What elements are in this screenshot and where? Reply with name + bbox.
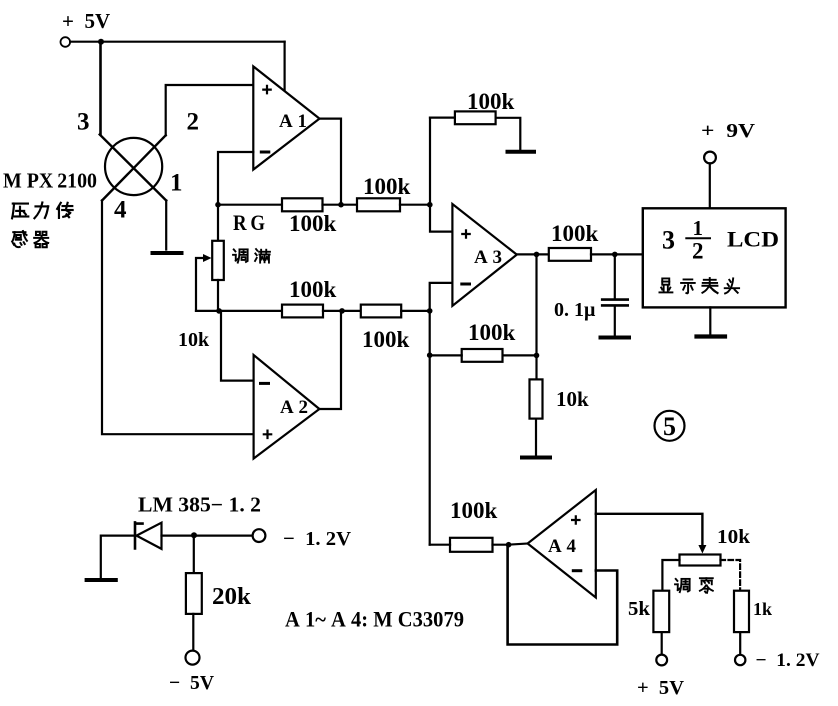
- capacitor 0.1u top lead: [614, 254, 616, 298]
- wire row1 mid: [323, 204, 358, 206]
- wire row1 right: [400, 204, 430, 206]
- ground LM385: [87, 578, 116, 582]
- wire pot left lead: [662, 560, 679, 591]
- resistor 100k A3 out: [549, 248, 591, 261]
- wire +5V down to bridge pin 3: [99, 42, 102, 135]
- wire pin 4 down to A2 +: [102, 201, 254, 435]
- svg-text:+ 9V: + 9V: [701, 120, 756, 142]
- svg-text:− 1. 2V: − 1. 2V: [283, 528, 352, 550]
- svg-text:10k: 10k: [178, 329, 210, 351]
- node row1 right junction: [427, 202, 433, 208]
- svg-text:100k: 100k: [289, 211, 337, 236]
- node cap junction: [612, 252, 618, 258]
- terminal +9V: [704, 152, 716, 164]
- svg-text:3: 3: [662, 226, 675, 255]
- svg-text:A 1: A 1: [279, 111, 307, 132]
- wire A3 output: [517, 253, 549, 255]
- wire A4 output stub: [508, 544, 528, 545]
- potentiometer 10k body: [680, 555, 721, 566]
- wiper arrowhead A4: [698, 545, 706, 554]
- wiper arrowhead: [203, 254, 212, 262]
- wire top feedback right: [496, 118, 521, 150]
- node LM385 junction: [191, 532, 197, 538]
- wire row2 left: [196, 310, 282, 312]
- wire 10k top lead: [535, 355, 537, 379]
- svg-text:A 3: A 3: [474, 247, 502, 268]
- svg-text:5k: 5k: [628, 598, 651, 620]
- resistor 100k row2 b: [361, 305, 401, 318]
- wire 5k bottom: [661, 632, 663, 654]
- node row1 left junction: [215, 202, 221, 208]
- svg-text:3: 3: [77, 109, 90, 136]
- wire LM385 right: [162, 534, 253, 536]
- node junction +5V: [98, 39, 104, 45]
- wire fb row left part: [430, 354, 462, 356]
- resistor 100k row1 b: [357, 198, 400, 211]
- wire row1 left: [218, 204, 282, 206]
- svg-text:10k: 10k: [556, 387, 589, 411]
- wire fb row right part: [503, 354, 537, 356]
- svg-text:1k: 1k: [753, 599, 772, 619]
- resistor 5k: [653, 591, 669, 632]
- op-amp A1: [253, 66, 319, 169]
- wire top feedback left: [430, 116, 455, 118]
- wire A4 100k right: [493, 544, 508, 546]
- plus sign A3: [461, 229, 471, 239]
- wire A2 output up: [319, 311, 341, 409]
- node row2 mid junction: [339, 308, 345, 314]
- ground capacitor: [601, 336, 630, 340]
- node A4 output junction: [506, 542, 512, 548]
- svg-text:10k: 10k: [717, 526, 751, 548]
- svg-text:+ 5V: + 5V: [637, 677, 685, 699]
- wire A2 minus lead: [221, 311, 254, 381]
- resistor 1k: [734, 591, 749, 632]
- resistor 100k row2 a: [282, 305, 323, 318]
- wire A3 plus chain vertical: [430, 118, 452, 232]
- minus sign A2: [259, 382, 270, 385]
- svg-text:2: 2: [187, 109, 200, 136]
- svg-text:100k: 100k: [362, 327, 410, 352]
- svg-text:100k: 100k: [468, 320, 516, 345]
- text tiaoman: [233, 249, 270, 263]
- terminal -1.2V left: [253, 529, 266, 542]
- resistor 100k A3 top: [455, 111, 496, 124]
- figure number 5: [655, 411, 685, 441]
- plus sign A1: [262, 85, 272, 95]
- wire pin 2 up to A1 +: [166, 85, 254, 135]
- svg-text:− 5V: − 5V: [169, 672, 215, 694]
- resistor 100k A3 fb: [462, 349, 503, 362]
- svg-text:2: 2: [692, 239, 704, 264]
- wire 10k bottom lead: [535, 419, 537, 456]
- text tiaoling: [675, 578, 713, 593]
- resistor 100k row1 a: [282, 198, 323, 211]
- potentiometer RG body: [212, 241, 224, 280]
- resistor 100k A4: [450, 538, 493, 552]
- svg-text:M PX 2100: M PX 2100: [3, 169, 97, 193]
- node +5V terminal: [61, 37, 71, 47]
- svg-text:4: 4: [114, 197, 127, 224]
- svg-text:100k: 100k: [289, 277, 337, 302]
- wire 20k bottom: [192, 614, 194, 651]
- wire A4 feedback loop: [508, 545, 618, 645]
- wire 20k top: [193, 535, 195, 573]
- minus sign A1: [260, 151, 271, 154]
- wire pin 1 down: [165, 201, 167, 250]
- svg-text:20k: 20k: [212, 584, 252, 610]
- svg-text:LM 385− 1. 2: LM 385− 1. 2: [138, 493, 261, 517]
- svg-text:1: 1: [170, 170, 183, 197]
- capacitor plates: [602, 300, 628, 306]
- ground LCD: [697, 334, 726, 338]
- wire A1 supply drop: [284, 42, 286, 91]
- svg-text:A 1~ A 4: M C33079: A 1~ A 4: M C33079: [285, 607, 464, 632]
- svg-text:5: 5: [663, 412, 676, 441]
- wire row2 right: [401, 310, 430, 312]
- LCD box: [643, 208, 786, 307]
- svg-text:LCD: LCD: [727, 227, 779, 252]
- plus sign A2: [263, 430, 273, 440]
- wire RG wiper arm: [196, 258, 206, 311]
- wire A3 minus lead: [430, 283, 453, 545]
- node fb bottom junction: [534, 353, 540, 359]
- ground 10k: [522, 456, 550, 460]
- node A3 output junction: [534, 252, 540, 258]
- op-amp A2: [254, 355, 320, 459]
- svg-text:1: 1: [693, 216, 704, 240]
- resistor 20k: [186, 573, 202, 614]
- node A3 minus fb junction: [427, 352, 433, 358]
- wire to LCD: [591, 253, 643, 255]
- minus sign A3: [460, 283, 471, 286]
- wire A4 plus to wiper: [596, 514, 703, 546]
- text yali chuan: [12, 202, 73, 218]
- wire row2 mid: [323, 310, 361, 312]
- wire LCD bottom pin: [709, 307, 711, 334]
- svg-text:100k: 100k: [450, 498, 498, 523]
- node A3 minus row2 junction: [427, 308, 433, 314]
- text ganqi: [12, 231, 48, 247]
- diode LM385 cathode bar: [135, 522, 143, 548]
- wire bridge diagonal arms: [100, 135, 167, 201]
- wire 9V down: [709, 163, 711, 208]
- wire LM385 ground lead: [101, 536, 135, 578]
- svg-text:A 2: A 2: [280, 397, 308, 418]
- capacitor bottom lead: [614, 307, 616, 336]
- svg-text:100k: 100k: [551, 221, 599, 246]
- wire +5V rail top: [70, 41, 284, 43]
- minus sign A4: [572, 569, 583, 572]
- wire A1 output: [320, 119, 342, 205]
- sensor MPX2100 bridge circle: [105, 138, 162, 195]
- svg-text:− 1. 2V: − 1. 2V: [756, 650, 820, 671]
- svg-text:A 4: A 4: [548, 536, 576, 557]
- wire A1 minus lead: [218, 152, 253, 241]
- node row1 mid junction: [338, 202, 344, 208]
- resistor 10k vertical: [530, 379, 543, 418]
- terminal +5V bottom: [656, 655, 667, 666]
- text xianshibiaotou: [659, 278, 739, 293]
- svg-text:R G: R G: [233, 210, 265, 235]
- ground top feedback: [508, 150, 535, 154]
- op-amp A3: [452, 204, 516, 306]
- node row2 left junction: [216, 308, 222, 314]
- plus sign A4: [571, 515, 581, 525]
- terminal -1.2V right: [735, 655, 745, 665]
- wire RG bottom lead: [217, 280, 219, 311]
- svg-text:0. 1μ: 0. 1μ: [554, 299, 596, 321]
- svg-text:100k: 100k: [467, 89, 515, 114]
- ground pin1: [153, 251, 182, 255]
- wire A4 100k left: [430, 544, 450, 546]
- diode LM385 triangle: [137, 523, 162, 549]
- terminal -5V: [186, 651, 200, 665]
- wire pot right lead dashed: [721, 560, 741, 591]
- svg-text:100k: 100k: [363, 174, 411, 199]
- svg-text:+ 5V: + 5V: [62, 9, 110, 33]
- wire A3 feedback down: [535, 254, 537, 355]
- op-amp A4 (points left): [528, 490, 596, 598]
- wire 1k bottom: [739, 632, 741, 655]
